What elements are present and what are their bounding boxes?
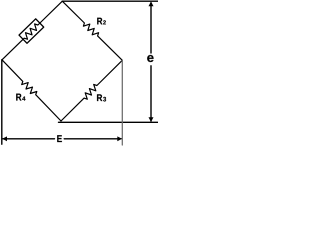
extension line from right node c [121, 60, 123, 145]
resistor R1 arm (boxed zigzag, left-top) [2, 1, 62, 60]
resistor R2 arm [62, 1, 122, 60]
resistor R1 box [19, 19, 44, 43]
dimension line E (horizontal, bottom) [3, 138, 121, 140]
arrowhead E left [2, 136, 7, 141]
arrowhead E right [117, 136, 122, 141]
extension line from left node a [1, 60, 3, 144]
arrowhead e down [149, 117, 154, 122]
arrowhead e up [149, 1, 154, 6]
dimension line e (vertical, right) [150, 3, 152, 121]
label R4 [16, 94, 25, 101]
wire top: node b to right edge [62, 0, 158, 2]
label R2 [97, 18, 106, 25]
label R3 [97, 94, 106, 101]
wire bottom: node d to right edge [59, 121, 159, 123]
resistor R4 arm [2, 60, 61, 121]
label e [147, 55, 153, 62]
resistor R3 arm [61, 60, 122, 121]
label E [57, 135, 62, 142]
